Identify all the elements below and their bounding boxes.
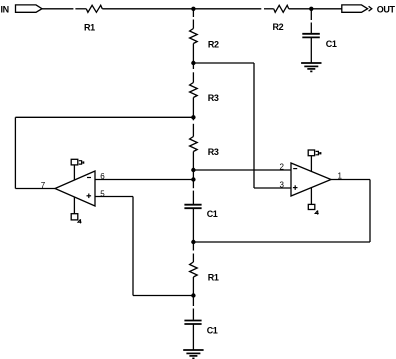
U2 V- power pin (bottom, pin 4) [308, 188, 318, 215]
ground (bottom) [183, 350, 203, 358]
wire output node to capacitor C1 (right) [310, 9, 312, 33]
resistor R1 (top) [84, 5, 102, 32]
wire node C to U2 pin 3 (right then down) [193, 63, 291, 188]
node D (junction between R3s, to U1 output loop) [191, 115, 195, 119]
node G (junction to U2 output feedback) [191, 240, 195, 244]
wire R1 to R2 (top rail) [102, 8, 273, 10]
wire C1 to ground (right) [310, 37, 312, 63]
U2 V+ power pin (top, pin 8) [308, 150, 321, 172]
svg-text:5: 5 [100, 189, 105, 198]
ground (right) [301, 63, 321, 71]
wire IN to R1 [42, 8, 86, 10]
node C (junction below R2, to U2 pin 3 net) [191, 61, 195, 65]
op-amp U1 (left, pointing left) [55, 171, 95, 206]
op-amp U2 (right, pointing right) [291, 163, 331, 196]
svg-text:R3: R3 [208, 147, 219, 157]
svg-text:3: 3 [280, 180, 285, 189]
resistor R2 (middle column) [190, 29, 219, 50]
wire U2 pin 1 output feedback (right, down, left to node G) [193, 180, 370, 243]
wire R3 to node D [192, 98, 194, 121]
wire top node down to R2 (middle column) [192, 9, 194, 29]
svg-text:R1: R1 [84, 22, 95, 32]
wire node C down to R3 [192, 63, 194, 83]
wire R3 lower to node E/F [192, 152, 194, 189]
wire U1 pin 7 output loop (left, up, right to node D) [15, 117, 193, 188]
node E (junction to U2 pin 2 wire) [191, 168, 195, 172]
wire R2 to OUT [289, 8, 342, 10]
node B (output node junction) [309, 7, 313, 11]
wire node E to U2 pin 2 [193, 169, 291, 171]
svg-text:2: 2 [280, 163, 285, 172]
svg-text:R1: R1 [208, 273, 219, 283]
wire R2 to node C [192, 44, 194, 64]
wire node D down to R3 lower [192, 124, 194, 137]
port OUT [342, 4, 396, 14]
node H (junction to U1 pin 5 wire) [191, 293, 195, 297]
capacitor C1 (right) [302, 34, 337, 49]
node F (junction to U1 pin 6 wire) [191, 177, 195, 181]
svg-text:C1: C1 [326, 39, 337, 49]
capacitor C1 (middle) [184, 205, 217, 219]
svg-text:6: 6 [100, 172, 105, 181]
svg-text:1: 1 [338, 171, 343, 180]
wire C1 middle to node G and R1 [192, 208, 194, 262]
svg-text:R2: R2 [273, 22, 284, 32]
wire node F down to C1 (middle) [192, 191, 194, 204]
resistor R3 (lower) [190, 137, 219, 158]
U1 V+ power pin (top, pin 8) [71, 159, 84, 180]
port IN [1, 4, 43, 14]
svg-text:C1: C1 [207, 326, 218, 336]
svg-text:IN: IN [1, 4, 9, 14]
U1 V- power pin (bottom, pin 4) [71, 197, 81, 223]
svg-text:R3: R3 [208, 93, 219, 103]
resistor R2 (top) [273, 5, 289, 32]
svg-text:7: 7 [41, 181, 46, 190]
wire U1 pin 6 to node F [95, 179, 193, 181]
svg-text:OUT: OUT [377, 4, 396, 14]
resistor R1 (bottom) [190, 262, 219, 283]
wire node H to C1 (bottom) [192, 309, 194, 320]
svg-text:R2: R2 [208, 39, 219, 49]
wire U1 pin 5 to node H (right, down, right) [95, 197, 193, 296]
capacitor C1 (bottom) [184, 321, 217, 336]
node A (top rail / middle column junction) [191, 7, 195, 11]
wire C1 bottom to ground [192, 324, 194, 350]
wire R1 to node H [192, 277, 194, 306]
svg-text:C1: C1 [207, 209, 218, 219]
resistor R3 (upper) [190, 83, 219, 104]
